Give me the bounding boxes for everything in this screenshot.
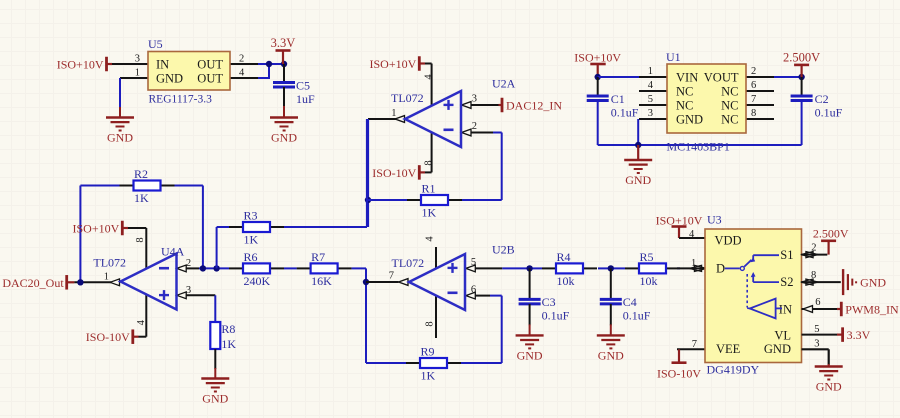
svg-text:3: 3 bbox=[472, 94, 477, 105]
svg-text:VIN: VIN bbox=[676, 71, 698, 85]
svg-text:1K: 1K bbox=[422, 206, 437, 220]
svg-text:8: 8 bbox=[424, 160, 435, 165]
svg-text:2: 2 bbox=[186, 258, 191, 269]
svg-text:S2: S2 bbox=[780, 275, 793, 289]
svg-text:TL072: TL072 bbox=[392, 256, 425, 270]
svg-text:ISO-10V: ISO-10V bbox=[657, 367, 701, 381]
svg-text:GND: GND bbox=[764, 342, 791, 356]
svg-text:GND: GND bbox=[271, 131, 297, 145]
svg-text:GND: GND bbox=[816, 380, 842, 394]
svg-text:NC: NC bbox=[721, 85, 738, 99]
svg-text:5: 5 bbox=[471, 257, 476, 268]
svg-text:TL072: TL072 bbox=[391, 91, 424, 105]
svg-text:VL: VL bbox=[774, 329, 791, 343]
svg-text:R9: R9 bbox=[421, 345, 435, 359]
svg-text:0.1uF: 0.1uF bbox=[542, 309, 570, 323]
svg-text:8: 8 bbox=[425, 321, 436, 326]
svg-text:2: 2 bbox=[811, 243, 816, 254]
svg-text:2.500V: 2.500V bbox=[783, 50, 820, 64]
svg-text:1K: 1K bbox=[134, 191, 149, 205]
svg-text:2: 2 bbox=[751, 66, 756, 77]
svg-text:3.3V: 3.3V bbox=[847, 328, 871, 342]
svg-text:1: 1 bbox=[648, 66, 653, 77]
svg-text:R6: R6 bbox=[244, 250, 258, 264]
svg-text:D: D bbox=[716, 262, 725, 276]
svg-text:C5: C5 bbox=[296, 78, 310, 92]
svg-text:C3: C3 bbox=[542, 295, 556, 309]
svg-text:6: 6 bbox=[815, 297, 820, 308]
svg-text:GND: GND bbox=[598, 348, 624, 362]
svg-text:VEE: VEE bbox=[716, 342, 741, 356]
svg-text:10k: 10k bbox=[557, 274, 575, 288]
svg-text:C1: C1 bbox=[611, 92, 625, 106]
svg-text:2.500V: 2.500V bbox=[813, 227, 849, 241]
svg-text:TL072: TL072 bbox=[93, 256, 126, 270]
svg-text:GND: GND bbox=[156, 72, 183, 86]
svg-text:10k: 10k bbox=[640, 274, 658, 288]
svg-text:6: 6 bbox=[751, 80, 756, 91]
svg-text:2: 2 bbox=[472, 121, 477, 132]
svg-text:0.1uF: 0.1uF bbox=[815, 105, 843, 119]
svg-text:ISO+10V: ISO+10V bbox=[370, 57, 417, 71]
svg-text:3: 3 bbox=[135, 54, 140, 65]
svg-text:ISO+10V: ISO+10V bbox=[73, 222, 120, 236]
svg-text:8: 8 bbox=[751, 108, 756, 119]
svg-text:5: 5 bbox=[814, 324, 819, 335]
svg-text:4: 4 bbox=[425, 236, 436, 242]
svg-text:REG1117-3.3: REG1117-3.3 bbox=[149, 94, 213, 106]
svg-text:ISO+10V: ISO+10V bbox=[57, 58, 104, 72]
svg-text:4: 4 bbox=[689, 229, 695, 240]
svg-text:3: 3 bbox=[186, 285, 191, 296]
svg-text:NC: NC bbox=[721, 99, 738, 113]
svg-text:8: 8 bbox=[811, 270, 816, 281]
svg-text:R3: R3 bbox=[244, 209, 258, 223]
svg-text:4: 4 bbox=[424, 74, 435, 80]
svg-text:1K: 1K bbox=[421, 369, 436, 383]
svg-text:3: 3 bbox=[814, 339, 819, 350]
svg-text:DAC12_IN: DAC12_IN bbox=[506, 99, 562, 113]
svg-text:OUT: OUT bbox=[197, 72, 223, 86]
svg-text:C2: C2 bbox=[815, 92, 829, 106]
svg-text:1: 1 bbox=[391, 108, 396, 119]
svg-text:1: 1 bbox=[135, 68, 140, 79]
svg-text:U1: U1 bbox=[666, 50, 681, 64]
svg-text:U2A: U2A bbox=[492, 77, 516, 91]
svg-text:IN: IN bbox=[779, 303, 792, 317]
svg-text:R4: R4 bbox=[557, 250, 571, 264]
svg-text:7: 7 bbox=[751, 94, 756, 105]
svg-text:S1: S1 bbox=[780, 248, 793, 262]
svg-text:1K: 1K bbox=[244, 233, 259, 247]
svg-text:DG419DY: DG419DY bbox=[707, 363, 760, 377]
svg-text:R8: R8 bbox=[221, 322, 235, 336]
svg-text:7: 7 bbox=[692, 339, 697, 350]
svg-text:U4A: U4A bbox=[161, 245, 185, 259]
svg-text:3: 3 bbox=[648, 108, 653, 119]
svg-text:240K: 240K bbox=[244, 274, 271, 288]
svg-text:7: 7 bbox=[389, 271, 394, 282]
svg-text:U2B: U2B bbox=[492, 243, 515, 257]
svg-text:ISO+10V: ISO+10V bbox=[574, 51, 621, 65]
svg-text:R2: R2 bbox=[134, 167, 148, 181]
svg-text:ISO-10V: ISO-10V bbox=[86, 330, 130, 344]
svg-text:3.3V: 3.3V bbox=[271, 36, 296, 50]
svg-text:0.1uF: 0.1uF bbox=[623, 309, 651, 323]
svg-text:IN: IN bbox=[156, 58, 169, 72]
svg-text:ISO-10V: ISO-10V bbox=[372, 166, 416, 180]
svg-text:OUT: OUT bbox=[197, 58, 223, 72]
svg-text:4: 4 bbox=[648, 80, 654, 91]
svg-text:1uF: 1uF bbox=[296, 92, 315, 106]
svg-text:R5: R5 bbox=[640, 250, 654, 264]
svg-text:2: 2 bbox=[239, 54, 244, 65]
svg-text:U5: U5 bbox=[148, 37, 163, 51]
svg-text:DAC20_Out: DAC20_Out bbox=[2, 276, 64, 290]
svg-text:GND: GND bbox=[202, 392, 228, 406]
svg-text:C4: C4 bbox=[623, 295, 637, 309]
svg-text:8: 8 bbox=[135, 237, 146, 242]
svg-text:R1: R1 bbox=[422, 182, 436, 196]
svg-text:U3: U3 bbox=[707, 213, 722, 227]
svg-text:GND: GND bbox=[517, 348, 543, 362]
svg-text:4: 4 bbox=[136, 319, 147, 325]
svg-text:1K: 1K bbox=[221, 337, 236, 351]
svg-text:R7: R7 bbox=[311, 250, 325, 264]
svg-text:NC: NC bbox=[676, 99, 693, 113]
svg-text:5: 5 bbox=[648, 94, 653, 105]
svg-text:GND: GND bbox=[676, 113, 703, 127]
svg-text:GND: GND bbox=[625, 173, 651, 187]
svg-text:VOUT: VOUT bbox=[704, 71, 739, 85]
svg-text:NC: NC bbox=[676, 85, 693, 99]
svg-text:VDD: VDD bbox=[715, 234, 742, 248]
svg-text:GND: GND bbox=[860, 276, 886, 290]
svg-text:MC1403BP1: MC1403BP1 bbox=[667, 140, 730, 154]
svg-text:NC: NC bbox=[721, 113, 738, 127]
svg-text:1: 1 bbox=[104, 271, 109, 282]
svg-text:0.1uF: 0.1uF bbox=[611, 105, 639, 119]
svg-text:PWM8_IN: PWM8_IN bbox=[845, 303, 899, 317]
svg-text:GND: GND bbox=[107, 131, 133, 145]
svg-text:16K: 16K bbox=[311, 274, 332, 288]
svg-text:6: 6 bbox=[471, 285, 476, 296]
svg-text:4: 4 bbox=[239, 68, 245, 79]
svg-text:1: 1 bbox=[691, 258, 696, 269]
